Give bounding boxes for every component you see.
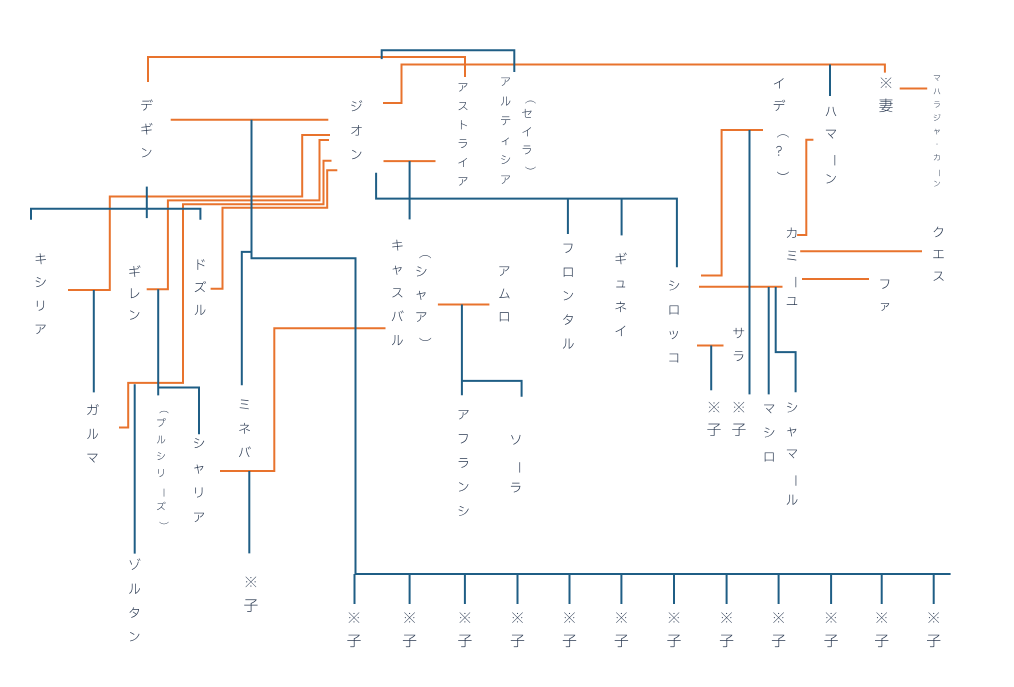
wire Degwin long line to bottom bar (blue) bbox=[252, 120, 951, 574]
wire Sarah tick (orange) bbox=[697, 345, 724, 347]
label Haman ハマーン bbox=[826, 107, 837, 184]
wire Sharia branch (blue) bbox=[158, 388, 199, 435]
wire Shamalle drop (blue) bbox=[776, 287, 796, 392]
wire Zeon-wife long top (orange) bbox=[383, 65, 885, 104]
label Sola ソーラ bbox=[511, 435, 521, 493]
wire Char-Amuro bar (orange) bbox=[438, 304, 490, 306]
label Dozle ドズル bbox=[195, 259, 206, 315]
wire Gyunei drop (blue) bbox=[621, 199, 623, 236]
wire Sarah child drop (blue) bbox=[710, 346, 712, 391]
label Gihren ギレン bbox=[129, 265, 140, 319]
wire bottom child drop 10 (blue) bbox=[830, 574, 832, 604]
label Sarah サラ bbox=[733, 328, 744, 361]
label Afranche アフランシ bbox=[459, 410, 469, 516]
label Zoltan ゾルタン bbox=[129, 558, 140, 641]
wire bottom child drop 5 (blue) bbox=[569, 574, 571, 604]
wire Sola branch (blue) bbox=[462, 381, 522, 397]
wire Casval drop (blue) bbox=[409, 161, 411, 219]
label child ※子 (bottom row 12) bbox=[927, 612, 940, 647]
label Mashiro マシロ bbox=[764, 405, 774, 462]
wire Zeon-Astraia bar (orange) bbox=[384, 160, 436, 162]
wire bottom child drop 4 (blue) bbox=[517, 574, 519, 604]
wire bottom child drop 11 (blue) bbox=[881, 574, 883, 604]
wire Mashiro drop (blue) bbox=[768, 287, 770, 394]
wire Degwin marriage bar (orange) bbox=[171, 119, 329, 121]
label child ※子 (bottom row 11) bbox=[875, 612, 888, 647]
label child ※子 (bottom row 4) bbox=[511, 612, 524, 647]
label Casval キャスバル bbox=[392, 240, 404, 346]
wire Ide-Scirocco (orange) bbox=[701, 130, 763, 276]
label Ide イデ（？） bbox=[774, 78, 789, 175]
label Kamille カミーユ bbox=[787, 227, 798, 304]
wire to Kycilia (orange) bbox=[68, 135, 330, 290]
label Shamalle シャマール bbox=[787, 403, 798, 505]
label Amuro アムロ bbox=[499, 267, 510, 322]
label child ※子 (bottom row 3) bbox=[458, 612, 471, 647]
wire Mineva child drop (blue) bbox=[248, 471, 250, 553]
label Fa ファ bbox=[880, 280, 889, 311]
label child ※子 (bottom row 1) bbox=[347, 612, 360, 647]
label Kycilia キシリア bbox=[36, 253, 46, 334]
label Astraia アストライア bbox=[458, 83, 467, 185]
wire Kamille-Fa (orange) bbox=[802, 278, 869, 280]
wire Haman-Kamille (orange) bbox=[797, 140, 813, 235]
label child ※子 (bottom row 2) bbox=[403, 612, 416, 647]
wire Scirocco bar (orange) bbox=[699, 286, 783, 288]
wire Ide children drop (blue) bbox=[749, 130, 751, 394]
label (Char) （シャア） bbox=[416, 255, 431, 341]
label Degwin デギン bbox=[141, 99, 153, 157]
label child ※子 (bottom row 10) bbox=[824, 612, 837, 647]
label child ※子 (bottom row 5) bbox=[563, 612, 576, 647]
label child ※子 (Ide) bbox=[732, 402, 745, 436]
wire Mineva stub (blue) bbox=[242, 252, 252, 385]
label Mineva ミネバ bbox=[239, 400, 251, 458]
wire Frontal drop (blue) bbox=[567, 199, 569, 234]
wire bottom child drop 3 (blue) bbox=[464, 574, 466, 604]
wire Kamille-Quess (orange) bbox=[800, 250, 922, 252]
label Maharaja Karn マハラジャ・カーン bbox=[934, 76, 941, 187]
label child ※子 (bottom row 8) bbox=[720, 612, 733, 647]
wire top Artesia (blue) bbox=[382, 50, 515, 72]
wire Zeon sibling bar (blue) bbox=[376, 173, 677, 267]
wire bottom child drop 8 (blue) bbox=[726, 574, 728, 604]
wire bottom child drop 7 (blue) bbox=[673, 574, 675, 604]
wire Mineva-Char (orange) bbox=[220, 328, 386, 471]
wire to Dozle (orange) bbox=[211, 170, 338, 289]
label (Sayla) （セイラ） bbox=[522, 101, 536, 170]
wire wife-Maharaja (orange) bbox=[900, 88, 928, 90]
label child ※子 (bottom row 9) bbox=[772, 612, 785, 647]
wire to Gihren (orange) bbox=[147, 140, 329, 289]
label Frontal フロンタル bbox=[563, 244, 574, 349]
wire bottom child drop 9 (blue) bbox=[778, 574, 780, 604]
label Gyunei ギュネイ bbox=[615, 253, 626, 337]
wire bottom child drop 1 (blue) bbox=[354, 574, 356, 604]
label child ※子 (Sarah) bbox=[707, 402, 720, 436]
label Sharia シャリア bbox=[194, 438, 204, 522]
label wife ※妻 bbox=[879, 77, 892, 112]
label child ※子 (bottom row 7) bbox=[667, 612, 680, 647]
wire Kycilia children drop (blue) bbox=[93, 290, 95, 392]
wire Zoltan drop (blue) bbox=[134, 384, 136, 553]
label Garma ガルマ bbox=[87, 404, 99, 463]
label (Puru series) （プルシリーズ） bbox=[157, 411, 169, 524]
wire to Puru/Garma (orange) bbox=[119, 161, 332, 428]
wire Gihren children drop (blue) bbox=[157, 289, 159, 395]
label child ※子 (bottom row 6) bbox=[615, 612, 628, 647]
label Scirocco シロッコ bbox=[669, 281, 679, 363]
wire sibling bar Kycilia-Dozle (blue) bbox=[31, 209, 200, 220]
wire Degwin-Astraia (orange) bbox=[148, 57, 465, 82]
label Artesia アルティシア bbox=[501, 78, 511, 184]
wire Afranche drop (blue) bbox=[461, 305, 463, 396]
wire Degwin drop (blue) bbox=[146, 187, 148, 219]
label Quess クエス bbox=[933, 227, 944, 281]
wire bottom child drop 6 (blue) bbox=[620, 574, 622, 604]
wire bottom child drop 12 (blue) bbox=[933, 574, 935, 604]
wire bottom child drop 2 (blue) bbox=[409, 574, 411, 604]
label Zeon ジオン bbox=[351, 100, 362, 159]
wire Haman drop (blue) bbox=[829, 65, 831, 97]
label child ※子 under Mineva bbox=[244, 576, 257, 611]
